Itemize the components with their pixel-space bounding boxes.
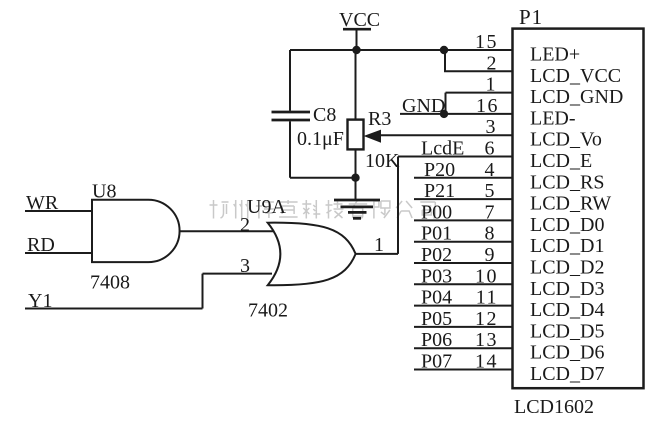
svg-text:9: 9 (485, 244, 497, 266)
svg-text:Y1: Y1 (28, 290, 52, 312)
svg-text:10: 10 (475, 265, 498, 287)
svg-text:P06: P06 (421, 329, 452, 351)
svg-text:LCD_E: LCD_E (530, 150, 592, 172)
svg-text:LCD_D7: LCD_D7 (530, 363, 604, 385)
svg-text:LED+: LED+ (530, 44, 580, 66)
svg-text:11: 11 (476, 287, 498, 309)
svg-text:P07: P07 (421, 351, 452, 373)
svg-text:LED-: LED- (530, 107, 576, 129)
svg-text:P05: P05 (421, 308, 452, 330)
svg-text:LCD_D5: LCD_D5 (530, 320, 604, 342)
svg-text:LCD_D1: LCD_D1 (530, 235, 604, 257)
svg-text:U9A: U9A (247, 196, 286, 218)
svg-text:2: 2 (487, 52, 499, 74)
svg-text:P20: P20 (424, 159, 455, 181)
svg-text:LCD_D4: LCD_D4 (530, 299, 604, 321)
svg-text:10K: 10K (365, 150, 400, 172)
svg-text:LCD_D2: LCD_D2 (530, 257, 604, 279)
svg-text:LCD_GND: LCD_GND (530, 86, 623, 108)
svg-text:WR: WR (26, 192, 59, 214)
svg-text:P03: P03 (421, 265, 452, 287)
svg-text:P01: P01 (421, 223, 452, 245)
svg-text:7: 7 (485, 201, 497, 223)
svg-text:LCD_VCC: LCD_VCC (530, 65, 621, 87)
svg-text:GND: GND (402, 95, 445, 117)
svg-text:0.1μF: 0.1μF (297, 128, 344, 150)
svg-text:VCC: VCC (339, 9, 380, 31)
svg-text:P1: P1 (519, 5, 543, 29)
svg-text:12: 12 (475, 308, 498, 330)
svg-text:LCD1602: LCD1602 (514, 396, 594, 418)
svg-text:R3: R3 (368, 108, 391, 130)
svg-text:P02: P02 (421, 244, 452, 266)
svg-text:LcdE: LcdE (421, 138, 464, 160)
svg-text:3: 3 (240, 255, 250, 277)
svg-text:13: 13 (475, 329, 498, 351)
svg-text:P00: P00 (421, 201, 452, 223)
svg-text:P21: P21 (424, 180, 455, 202)
svg-text:LCD_D0: LCD_D0 (530, 214, 604, 236)
svg-text:7408: 7408 (90, 272, 130, 294)
svg-text:1: 1 (486, 74, 498, 96)
svg-text:U8: U8 (92, 181, 116, 203)
svg-text:RD: RD (27, 234, 55, 256)
svg-text:14: 14 (475, 351, 498, 373)
svg-text:3: 3 (486, 116, 498, 138)
svg-text:C8: C8 (313, 104, 336, 126)
svg-text:4: 4 (485, 159, 497, 181)
svg-text:LCD_D6: LCD_D6 (530, 342, 604, 364)
svg-text:15: 15 (475, 31, 498, 53)
svg-text:2: 2 (240, 214, 250, 236)
svg-text:LCD_D3: LCD_D3 (530, 278, 604, 300)
svg-text:5: 5 (485, 180, 497, 202)
svg-text:1: 1 (374, 234, 384, 256)
svg-text:P04: P04 (421, 287, 452, 309)
svg-text:8: 8 (485, 223, 497, 245)
svg-text:LCD_Vo: LCD_Vo (530, 129, 602, 151)
svg-text:7402: 7402 (248, 300, 288, 322)
svg-text:LCD_RW: LCD_RW (530, 193, 611, 215)
svg-text:LCD_RS: LCD_RS (530, 171, 604, 193)
svg-text:16: 16 (476, 95, 499, 117)
svg-text:6: 6 (485, 138, 497, 160)
